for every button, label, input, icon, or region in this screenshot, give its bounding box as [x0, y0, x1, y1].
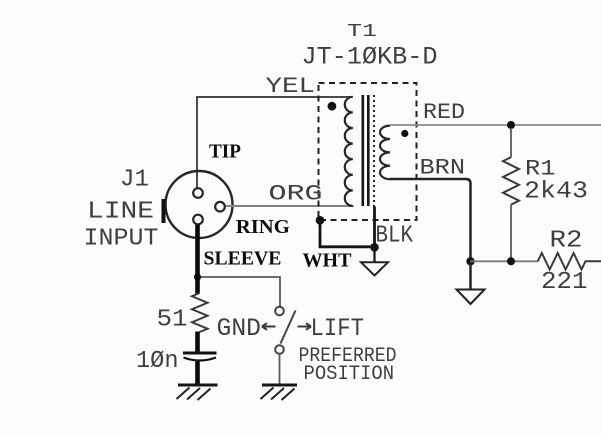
svg-text:POSITION: POSITION: [304, 363, 395, 386]
svg-text:RED: RED: [423, 100, 465, 125]
svg-text:SLEEVE: SLEEVE: [204, 248, 282, 270]
svg-text:TIP: TIP: [209, 141, 241, 163]
svg-text:JT-1ØKB-D: JT-1ØKB-D: [302, 43, 438, 72]
svg-text:LIFT: LIFT: [311, 314, 365, 343]
svg-text:2k43: 2k43: [524, 179, 588, 206]
svg-text:LINE: LINE: [87, 199, 154, 226]
svg-text:YEL: YEL: [266, 74, 316, 99]
svg-text:INPUT: INPUT: [84, 226, 159, 253]
svg-text:J1: J1: [120, 167, 149, 194]
svg-text:BRN: BRN: [420, 156, 466, 181]
svg-text:RING: RING: [236, 216, 290, 238]
svg-text:GND: GND: [217, 314, 262, 343]
svg-text:T1: T1: [347, 21, 377, 42]
svg-text:BLK: BLK: [376, 223, 414, 250]
svg-text:221: 221: [541, 269, 588, 296]
svg-text:WHT: WHT: [303, 250, 353, 272]
svg-text:ORG: ORG: [269, 182, 323, 207]
svg-text:51: 51: [157, 307, 188, 334]
svg-text:R2: R2: [550, 228, 583, 255]
svg-text:1Øn: 1Øn: [136, 348, 179, 375]
